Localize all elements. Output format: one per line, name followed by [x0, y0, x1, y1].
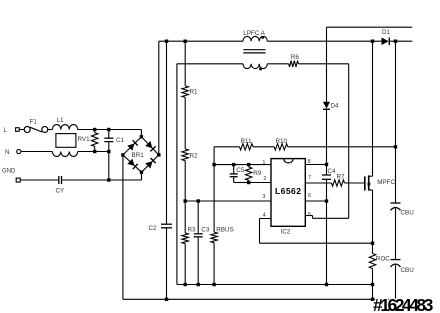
wire BR1 negative to bottom rail	[123, 155, 167, 299]
pin 3 label	[262, 194, 265, 200]
wire aux line down to D4	[326, 27, 328, 102]
wire fuse to L1	[48, 129, 53, 131]
wire R3 to middle rail	[184, 244, 186, 285]
svg-text:C2: C2	[149, 225, 158, 232]
resistor R7	[332, 174, 346, 187]
wire D4 to pin 8	[326, 109, 328, 175]
wire source to ROC	[372, 243, 374, 253]
fuse F1	[24, 119, 48, 133]
wire ROC to middle rail	[372, 269, 374, 285]
junction pin 6 / ground drop	[325, 199, 328, 202]
resistor R9	[246, 165, 262, 183]
wire R2 to R3	[184, 161, 186, 233]
wire L1 to RV1/C1 (top)	[78, 129, 142, 131]
resistor R2	[182, 149, 198, 161]
inductor LPFC A (boost inductor)	[243, 30, 267, 70]
wire BR1 positive to top rail	[158, 41, 160, 155]
junction top rail / C2	[165, 40, 168, 43]
junction RV1 top	[93, 128, 96, 131]
junction tie / bottom rail	[371, 298, 374, 301]
svg-text:IC2: IC2	[281, 229, 291, 236]
transistor Q1 MPFC (MOSFET)	[365, 41, 396, 190]
node GND (earth terminal)	[2, 169, 20, 183]
svg-text:F1: F1	[30, 119, 38, 126]
resistor RBUS	[211, 227, 234, 243]
wire L1 to RV1/C1 (bottom)	[78, 151, 109, 153]
wire aux top line	[327, 26, 413, 28]
resistor R10	[274, 138, 288, 150]
junction RBUS bottom	[212, 283, 215, 286]
junction RV1 bottom	[93, 150, 96, 153]
wire RBUS to middle rail	[213, 243, 215, 285]
svg-text:2: 2	[263, 176, 266, 182]
svg-text:ROC: ROC	[376, 256, 390, 263]
diode D1	[382, 29, 391, 45]
svg-text:D4: D4	[331, 103, 340, 110]
svg-text:#1624483: #1624483	[373, 295, 434, 313]
junction R9 bottom / pin 2	[247, 181, 250, 184]
svg-text:R11: R11	[241, 138, 253, 145]
wire INV node down to RBUS	[213, 147, 215, 232]
wire C1 top to bridge AC1	[109, 130, 142, 137]
capacitor C3	[194, 201, 210, 285]
junction ROC / middle rail	[371, 283, 374, 286]
junction C3 top	[197, 199, 200, 202]
svg-text:MPFC: MPFC	[377, 179, 395, 186]
junction drain / D1 anode	[371, 40, 374, 43]
wire ZCD winding to R6	[267, 63, 288, 65]
svg-text:R9: R9	[253, 170, 262, 177]
junction RBUS / pin1 line	[212, 163, 215, 166]
pin 5 label	[308, 212, 311, 218]
junction feedback / output bus	[394, 145, 397, 148]
junction BR1 top vertex	[140, 135, 143, 138]
wire pin 3 (MULT) line	[185, 200, 271, 202]
wire R11 to R10	[253, 146, 274, 148]
junction CY line / N jog	[107, 178, 110, 181]
inductor L1 (common-mode choke)	[52, 117, 77, 156]
resistor R3	[182, 227, 196, 244]
diode D4	[323, 102, 339, 110]
capacitor CBU (lower)	[391, 260, 415, 274]
wire D1 cathode to output stub	[390, 40, 412, 42]
junction C5 top	[232, 163, 235, 166]
svg-text:CBU: CBU	[401, 210, 415, 217]
svg-text:R2: R2	[190, 153, 199, 160]
junction MULT divider tap	[184, 199, 187, 202]
pin 8 label	[308, 159, 311, 165]
bridge rectifier BR1	[123, 137, 159, 172]
svg-text:4: 4	[263, 213, 266, 219]
wire N terminal to L1	[21, 151, 53, 153]
wire pin 1 (INV) line	[214, 164, 271, 166]
svg-text:1: 1	[262, 160, 265, 166]
wire middle rail (signal ground)	[177, 284, 373, 286]
capacitor C5	[230, 165, 249, 183]
resistor R11	[240, 138, 254, 150]
wire R7 to MOSFET gate	[345, 182, 365, 184]
junction source / CS line	[371, 242, 374, 245]
resistor R1	[182, 41, 198, 97]
wire CY to bridge AC2	[62, 172, 142, 180]
wire R1 to R2	[184, 97, 186, 148]
svg-text:C1: C1	[116, 137, 125, 144]
pin 1 label	[262, 160, 265, 166]
wire L terminal to fuse	[19, 129, 24, 131]
wire ZCD drop	[348, 64, 350, 219]
svg-text:C5: C5	[236, 167, 245, 174]
wire pin 8 (Vcc) line	[305, 164, 326, 166]
junction C1 top	[107, 128, 110, 131]
wire ZCD winding return	[176, 64, 178, 285]
svg-text:R1: R1	[190, 89, 199, 96]
pin 4 label	[263, 213, 266, 219]
junction R9 top	[247, 163, 250, 166]
junction pin 8 / Vcc rail	[325, 163, 328, 166]
svg-text:D1: D1	[382, 29, 391, 36]
wire R10 to output bus	[288, 146, 396, 148]
svg-text:R6: R6	[291, 54, 300, 61]
op-amp U1 controller IC2 L6562	[271, 159, 305, 227]
pin 7 label	[308, 175, 311, 181]
pin 2 label	[263, 176, 266, 182]
capacitor CY	[56, 176, 66, 195]
wire N jog down to CY line	[108, 152, 110, 181]
capacitor CBU (bulk)	[391, 203, 415, 217]
watermark #1624483	[373, 295, 434, 313]
junction R3 bottom	[184, 283, 187, 286]
resistor ROC	[369, 254, 390, 269]
svg-text:3: 3	[262, 194, 265, 200]
svg-text:RBUS: RBUS	[216, 227, 234, 234]
svg-text:CBU: CBU	[401, 267, 415, 274]
junction C1 bottom	[107, 150, 110, 153]
wire pin 5 (ZCD) line	[305, 216, 348, 219]
svg-text:L6562: L6562	[275, 186, 301, 196]
wire pin 6 (GND) line	[305, 200, 326, 202]
wire GND to CY	[20, 179, 59, 181]
wire middle rail to bottom rail tie	[372, 285, 374, 300]
pin 6 label	[308, 193, 311, 199]
resistor R6	[289, 54, 300, 67]
wire ZCD winding left	[177, 63, 243, 65]
wire MOSFET source down	[372, 190, 374, 243]
varistor RV1	[78, 130, 98, 152]
wire top rail (rectified bus)	[159, 40, 243, 42]
wire C4 to ground rail	[326, 179, 328, 284]
wire between output capacitors	[395, 209, 397, 260]
wire bottom rail	[167, 298, 396, 300]
wire pin 4 (CS) line	[260, 219, 373, 244]
svg-text:BR1: BR1	[132, 152, 145, 159]
junction bottom rail / C2	[165, 298, 168, 301]
node L (line input terminal)	[4, 127, 20, 134]
wire top rail right of LPFC	[267, 40, 381, 42]
junction Vcc rail / middle rail	[325, 283, 328, 286]
node N (neutral input terminal)	[5, 149, 21, 156]
svg-text:C3: C3	[201, 227, 210, 234]
svg-text:CY: CY	[56, 188, 66, 195]
svg-text:L: L	[4, 127, 8, 134]
wire pin 7 (GD) line	[305, 182, 331, 184]
svg-text:C4: C4	[328, 168, 337, 175]
junction C3 bottom	[197, 283, 200, 286]
wire lower capacitor to bottom rail	[395, 265, 397, 299]
junction top rail / R1	[184, 40, 187, 43]
wire pin 2 (COMP) line	[249, 182, 271, 184]
svg-text:7: 7	[308, 175, 311, 181]
svg-text:N: N	[5, 149, 10, 156]
junction D1 cathode / output bus	[394, 40, 397, 43]
capacitor C1	[104, 130, 124, 152]
junction BR1 right vertex	[157, 153, 160, 156]
capacitor C2	[149, 41, 173, 299]
capacitor C4	[322, 168, 336, 179]
wire output bus down	[395, 41, 397, 203]
svg-text:GND: GND	[2, 169, 16, 175]
label IC2	[281, 229, 291, 236]
svg-text:6: 6	[308, 193, 311, 199]
svg-text:R3: R3	[188, 227, 197, 234]
svg-text:RV1: RV1	[78, 136, 91, 143]
wire R6 to ZCD drop	[298, 63, 348, 65]
svg-text:L1: L1	[57, 117, 65, 124]
junction BR1 bottom vertex	[140, 171, 143, 174]
junction BR1 left vertex	[121, 153, 124, 156]
wire feedback line left	[214, 146, 239, 148]
